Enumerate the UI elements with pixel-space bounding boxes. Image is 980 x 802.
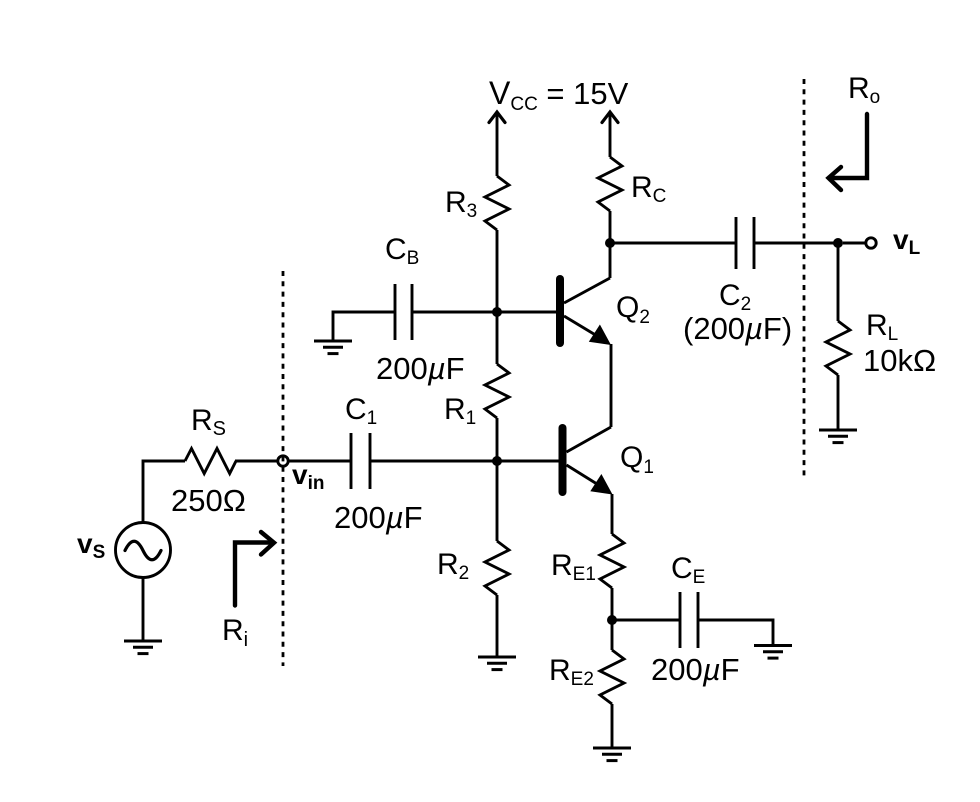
wire to vL terminal xyxy=(843,242,866,245)
VCC arrow right xyxy=(609,112,612,157)
ground (RL) xyxy=(819,430,857,443)
resistor RS xyxy=(185,449,236,474)
capacitor C2 xyxy=(735,217,738,269)
wire CE to ground xyxy=(698,620,773,645)
transistor Q1 xyxy=(559,424,613,534)
node collector/C2 xyxy=(605,238,615,248)
node RE1/RE2/CE xyxy=(607,615,617,625)
wire RL to ground xyxy=(837,375,840,430)
capacitor CB xyxy=(394,284,397,340)
source vS xyxy=(116,523,171,578)
node vL junction xyxy=(833,238,843,248)
transistor Q2 xyxy=(556,243,611,427)
ground (RE2) xyxy=(593,748,631,761)
wire RS to vin node xyxy=(235,460,278,463)
resistor R1 xyxy=(485,364,509,418)
wire vS bottom xyxy=(142,578,145,642)
wire C2 to vL node xyxy=(754,242,838,245)
svg-text:10kΩ: 10kΩ xyxy=(863,343,936,378)
svg-text:250Ω: 250Ω xyxy=(171,483,246,518)
wire CB ground to capacitor xyxy=(333,312,395,341)
ground (vS) xyxy=(124,641,162,654)
wire RE1 to node xyxy=(611,588,614,650)
wire R3 node through R1 to R2 xyxy=(496,312,499,364)
arrow Ro xyxy=(829,114,868,190)
resistor RE1 xyxy=(600,534,624,588)
capacitor CE xyxy=(679,592,682,648)
resistor RE2 xyxy=(600,650,624,704)
wire R3 to base node xyxy=(496,230,499,312)
dashed boundary Ro xyxy=(803,79,806,476)
svg-text:200µF: 200µF xyxy=(651,652,740,687)
wire node to C2 xyxy=(610,242,736,245)
resistor R2 xyxy=(485,541,509,595)
capacitor C1 xyxy=(350,433,353,489)
wire CB to Q2 base xyxy=(412,311,556,314)
svg-text:(200µF): (200µF) xyxy=(683,311,792,346)
terminal vL (open circle) xyxy=(866,238,876,248)
svg-text:VCC = 15V: VCC = 15V xyxy=(489,75,629,115)
node junction at R1/R2/vin xyxy=(492,456,502,466)
resistor RL xyxy=(826,321,850,375)
wire vin to C1 xyxy=(289,460,352,463)
wire C1 to base rail Q1 xyxy=(370,460,559,463)
ground (R2) xyxy=(478,657,516,670)
wire vL node to RL xyxy=(837,243,840,321)
ground (CB) xyxy=(314,341,352,354)
resistor RC xyxy=(598,157,622,211)
svg-text:200µF: 200µF xyxy=(334,500,423,535)
node vin (open circle) xyxy=(278,456,288,466)
dashed boundary Ri xyxy=(282,271,285,666)
wire vS top to RS xyxy=(143,461,185,523)
arrow Ri xyxy=(235,532,274,606)
VCC arrow left xyxy=(496,112,499,176)
wire node to CE xyxy=(612,619,680,622)
wire RE2 to ground xyxy=(611,704,614,747)
svg-text:200µF: 200µF xyxy=(376,351,465,386)
ground (CE) xyxy=(754,646,792,659)
sine wave xyxy=(125,541,161,560)
wire R2 to ground xyxy=(496,595,499,657)
resistor R3 xyxy=(485,176,509,230)
wire RC to output node xyxy=(609,211,612,243)
node R3/R1/CB (Q2 base) xyxy=(492,307,502,317)
